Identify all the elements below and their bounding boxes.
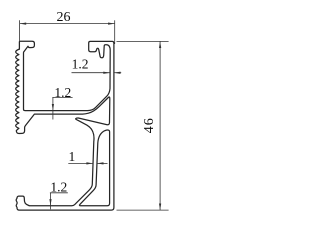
svg-text:1.2: 1.2 [72,56,89,71]
profile cross-section outline [16,41,114,210]
svg-text:26: 26 [57,10,71,25]
svg-text:1.2: 1.2 [50,180,67,195]
closed cell hole [79,130,109,206]
dim 26 line [20,23,115,25]
dim 46 line [159,41,161,210]
dim 26 extension lines [19,20,21,41]
svg-text:46: 46 [142,117,157,133]
dim 46 extension lines [117,40,169,42]
svg-text:1: 1 [69,149,76,164]
